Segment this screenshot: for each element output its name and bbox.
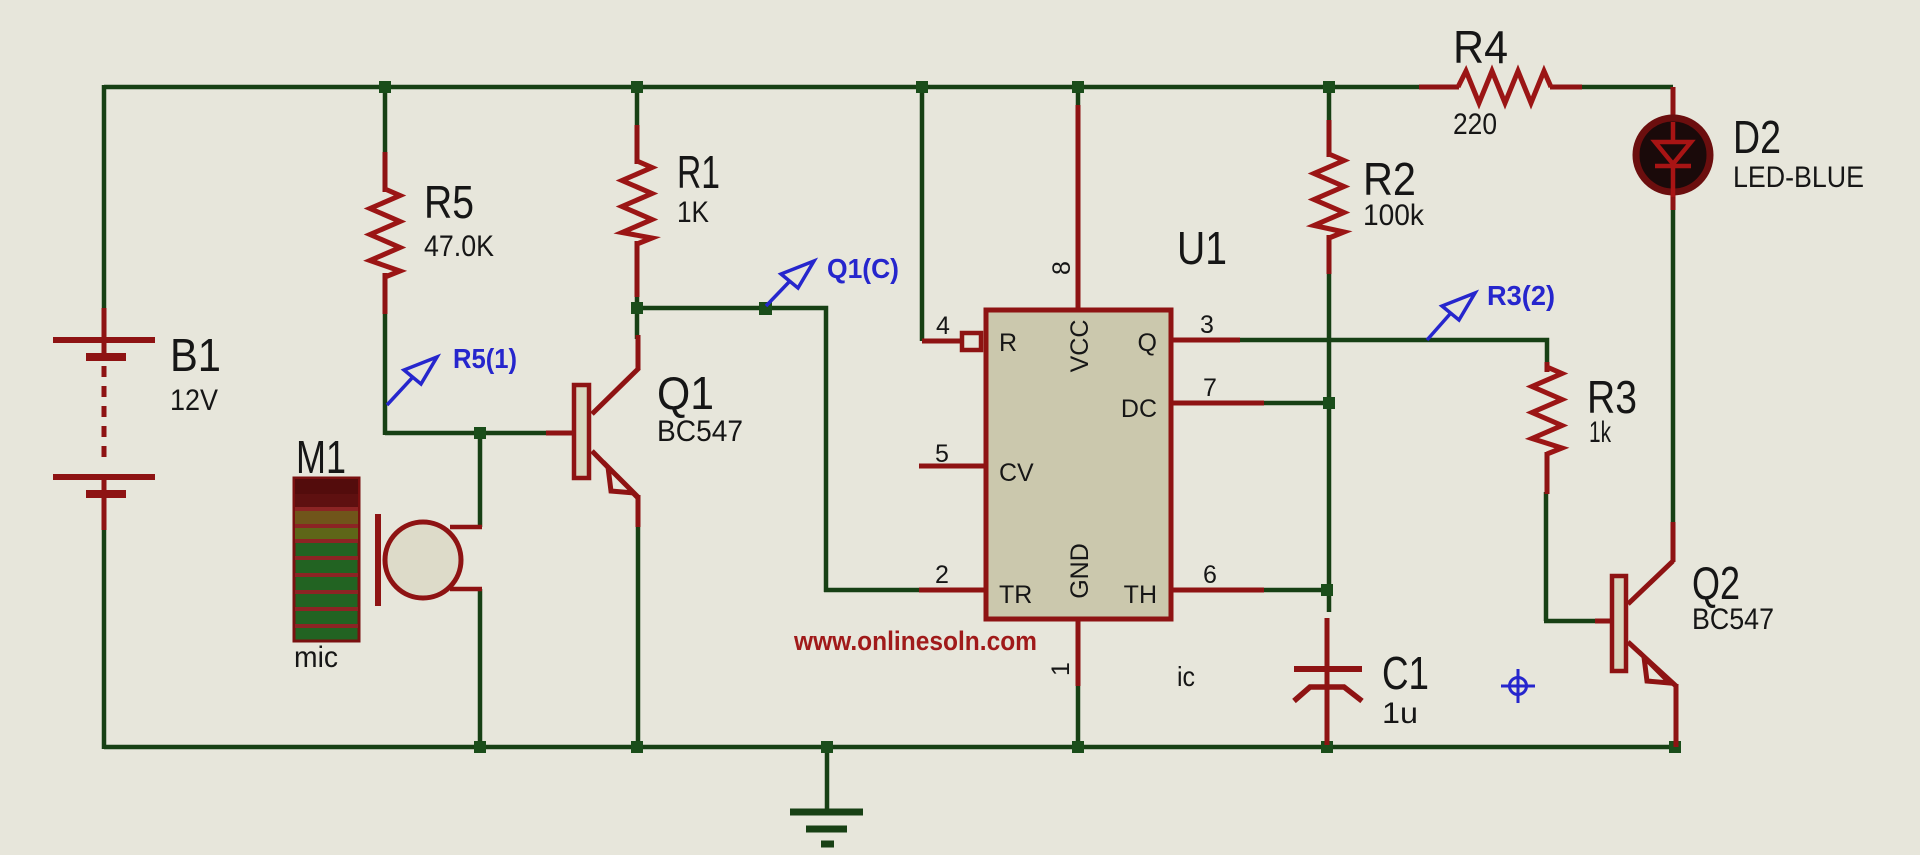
svg-text:2: 2 — [935, 561, 949, 589]
svg-text:R2: R2 — [1363, 153, 1416, 205]
svg-text:R5(1): R5(1) — [453, 343, 517, 374]
svg-text:mic: mic — [294, 641, 338, 674]
svg-text:Q2: Q2 — [1692, 557, 1740, 609]
svg-text:www.onlinesoln.com: www.onlinesoln.com — [793, 626, 1037, 656]
svg-text:Q1(C): Q1(C) — [827, 253, 899, 284]
svg-text:6: 6 — [1203, 561, 1217, 589]
svg-text:D2: D2 — [1733, 111, 1781, 163]
svg-text:100k: 100k — [1363, 199, 1425, 232]
svg-text:R3(2): R3(2) — [1487, 280, 1555, 311]
svg-text:U1: U1 — [1177, 222, 1227, 274]
svg-text:1k: 1k — [1589, 416, 1612, 449]
svg-text:M1: M1 — [296, 431, 346, 483]
svg-text:Q1: Q1 — [657, 367, 714, 419]
svg-text:1u: 1u — [1382, 697, 1418, 730]
svg-text:C1: C1 — [1382, 647, 1429, 699]
svg-text:1K: 1K — [677, 196, 709, 229]
svg-text:Q: Q — [1138, 329, 1157, 357]
svg-text:CV: CV — [999, 459, 1034, 487]
svg-text:LED-BLUE: LED-BLUE — [1733, 161, 1864, 194]
svg-text:4: 4 — [936, 312, 950, 340]
svg-text:1: 1 — [1047, 662, 1075, 676]
svg-text:ic: ic — [1177, 661, 1195, 692]
svg-text:BC547: BC547 — [1692, 603, 1774, 636]
svg-text:3: 3 — [1200, 311, 1214, 339]
svg-text:B1: B1 — [170, 329, 221, 381]
svg-text:DC: DC — [1121, 395, 1157, 423]
svg-text:47.0K: 47.0K — [424, 230, 494, 263]
svg-text:7: 7 — [1203, 374, 1217, 402]
svg-text:220: 220 — [1453, 108, 1497, 141]
svg-text:TR: TR — [999, 581, 1032, 609]
svg-text:BC547: BC547 — [657, 415, 743, 448]
svg-text:12V: 12V — [170, 384, 218, 417]
svg-text:TH: TH — [1124, 581, 1157, 609]
svg-text:R4: R4 — [1453, 21, 1508, 73]
svg-text:R1: R1 — [677, 146, 720, 198]
svg-text:R5: R5 — [424, 176, 474, 228]
svg-text:R: R — [999, 329, 1017, 357]
svg-text:GND: GND — [1066, 543, 1094, 599]
svg-text:VCC: VCC — [1066, 320, 1094, 373]
svg-text:5: 5 — [935, 440, 949, 468]
svg-text:8: 8 — [1048, 261, 1076, 275]
